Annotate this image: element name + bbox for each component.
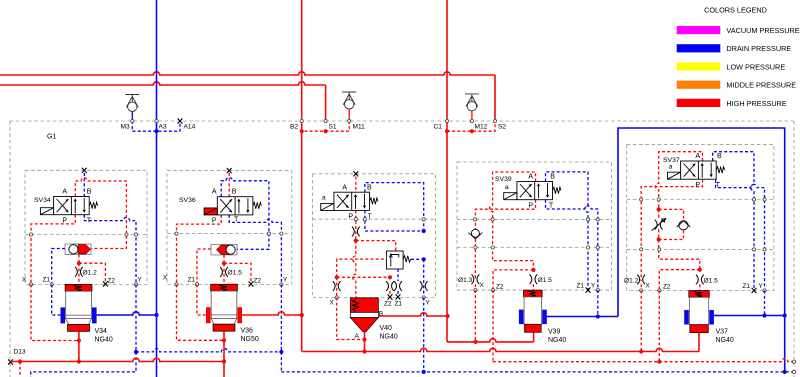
wire X node to V36 bottom junction xyxy=(177,285,225,341)
wire S1 drop to port S1 xyxy=(325,85,327,121)
wire S1 high-pressure bus (second horizontal) xyxy=(0,82,326,85)
svg-text:DRAIN PRESSURE: DRAIN PRESSURE xyxy=(726,44,791,53)
svg-text:COLORS LEGEND: COLORS LEGEND xyxy=(704,6,767,15)
wire SV37 P-line to orifice 1.2 xyxy=(641,180,702,281)
wire SV39 A-line loop xyxy=(489,172,535,270)
port Z2 plugged (SV34) xyxy=(103,281,108,286)
svg-text:X: X xyxy=(22,277,27,284)
svg-text:Ø1.3: Ø1.3 xyxy=(458,277,473,284)
port node Z1 (V36) xyxy=(195,283,198,286)
port node Y (V36) xyxy=(280,283,283,286)
port node M11 xyxy=(348,119,351,122)
port node bottom right xyxy=(792,370,795,373)
wire V34 drain to A3 line xyxy=(97,312,157,315)
junction A3 pilot xyxy=(154,129,158,133)
wire relief valve bottom to Z1 plug xyxy=(397,269,399,281)
svg-text:Y: Y xyxy=(138,277,143,284)
subplate divider V40 assembly xyxy=(313,218,436,220)
port node Y (V39) xyxy=(596,289,599,292)
svg-text:B: B xyxy=(717,153,722,160)
wire check valve bottom branch (SV36) xyxy=(223,255,225,264)
cartridge valve V36 NG50 xyxy=(211,284,238,291)
junction M12 pilot xyxy=(470,129,474,133)
wire V34 main port down to D13 bus xyxy=(78,331,80,361)
wire D13 branch to bottom edge xyxy=(19,362,21,377)
svg-text:Ø1.5: Ø1.5 xyxy=(538,277,553,284)
flow control valve SV37 pilot (adjustable) xyxy=(655,220,663,230)
relief valve V40 pilot xyxy=(386,251,403,269)
svg-text:V39: V39 xyxy=(548,329,561,336)
port node X (V34) xyxy=(29,283,32,286)
svg-text:Y: Y xyxy=(759,283,764,290)
wire V37 feed riser xyxy=(698,331,700,351)
port node X (V40) xyxy=(335,296,338,299)
junction check/orifice SV36 xyxy=(222,261,226,265)
junction V40 B on C1 line xyxy=(446,314,450,318)
solenoid valve V40 pilot xyxy=(334,192,378,210)
junction B2 line V36 drain xyxy=(300,313,304,317)
svg-text:Z1: Z1 xyxy=(43,277,51,284)
wire X node to V40 bottom junction xyxy=(337,298,365,340)
port node S2 xyxy=(493,119,496,122)
junction blue loop on bottom drain bus xyxy=(783,370,787,374)
wire Y drain down to bottom bus xyxy=(31,352,136,377)
svg-text:NG50: NG50 xyxy=(241,336,259,343)
bottom drain bus (blue) xyxy=(281,371,794,373)
svg-text:Z1: Z1 xyxy=(395,301,403,308)
junction P pilot (V40) xyxy=(354,239,358,243)
junction Y on V39 drain xyxy=(596,314,600,318)
junction Y on bottom drain bus (V40) xyxy=(422,370,426,374)
wire C1 to V39 feed xyxy=(447,339,534,342)
port SV36 B plugged xyxy=(227,168,232,173)
check valve SV39 pilot (vertical) xyxy=(471,229,479,237)
port node X (V39) xyxy=(474,289,477,292)
svg-text:Y: Y xyxy=(426,300,431,307)
node circles cluster2 divider xyxy=(175,232,178,235)
svg-text:Z2: Z2 xyxy=(108,278,116,285)
svg-text:S2: S2 xyxy=(498,124,506,131)
wire SV37 T-line to Y node xyxy=(716,180,765,291)
junction Y on V37 drain xyxy=(762,313,766,317)
orifice Y (V40) xyxy=(420,281,428,291)
svg-text:SV34: SV34 xyxy=(34,197,51,204)
enclosure G1 boundary left edge xyxy=(9,121,11,377)
svg-text:A3: A3 xyxy=(159,124,167,131)
junction V40 A on bus xyxy=(362,349,366,353)
svg-text:Z2: Z2 xyxy=(496,284,504,291)
solenoid valve SV34 xyxy=(54,197,98,215)
svg-text:X: X xyxy=(163,275,168,282)
svg-text:T: T xyxy=(549,203,554,210)
svg-text:Y: Y xyxy=(283,277,288,284)
wire orifice to V37 spring chamber xyxy=(699,284,701,290)
svg-text:X: X xyxy=(330,300,335,307)
node circles cluster5 dividers xyxy=(640,198,643,201)
svg-text:V36: V36 xyxy=(241,328,254,335)
junction check/orifice xyxy=(77,261,81,265)
wire orifice to V36 spring chamber xyxy=(223,263,225,284)
wire SV34 P-line to X node xyxy=(31,215,75,285)
orifice 1.5mm (V36 pilot) xyxy=(220,267,228,277)
svg-text:S1: S1 xyxy=(329,124,337,131)
junction Z2 (V40) xyxy=(388,275,392,279)
gauge test point M12 xyxy=(465,94,479,111)
wire V40 B port to C1 line xyxy=(378,313,447,316)
svg-text:M3: M3 xyxy=(121,124,130,131)
junction D13 branch xyxy=(18,359,22,363)
wire Z1 orifice to plug xyxy=(397,291,399,295)
svg-text:A: A xyxy=(528,174,533,181)
wire A-line branch to Z2 xyxy=(493,270,533,290)
junction S1 pilot xyxy=(324,129,328,133)
wire P pilot down to V40 spring chamber xyxy=(353,241,356,298)
wire V39 drain to right loop xyxy=(547,316,618,318)
junction X pilot (V40) xyxy=(335,275,339,279)
wire Z1 node to V34 left tab xyxy=(52,285,61,316)
gauge test point M11 xyxy=(342,92,356,109)
wire check valve to orifice 1.3 xyxy=(474,239,476,279)
port node D right (red bus) xyxy=(792,360,795,363)
wire Y drain down to bottom bus corner xyxy=(280,352,282,372)
cartridge valve V37 NG40 xyxy=(689,291,710,298)
solenoid valve SV37 xyxy=(681,161,725,179)
svg-text:T: T xyxy=(87,218,92,225)
svg-text:NG40: NG40 xyxy=(548,337,566,344)
wire V40 pilot B-line xyxy=(365,183,424,231)
svg-text:X: X xyxy=(480,282,485,289)
port V40 pilot A plugged xyxy=(353,171,358,176)
svg-text:T: T xyxy=(716,182,721,189)
orifice 1.5mm (V39) xyxy=(530,274,538,284)
wire to Z2 plug xyxy=(79,263,106,281)
junction V34 drain on A3 line xyxy=(154,313,158,317)
drain-pressure dashed bus (red) xyxy=(493,359,794,362)
wire B2 bus to V36/V40/V37 (bottom solid red bus) xyxy=(302,348,699,351)
wire SV36 B plug stub xyxy=(228,173,230,197)
subplate divider SV34 assembly xyxy=(25,234,147,236)
svg-text:B: B xyxy=(367,185,372,192)
svg-text:NG40: NG40 xyxy=(95,337,113,344)
wire drain link to A3 line xyxy=(136,349,281,352)
orifice Z2 (V40) xyxy=(386,281,394,291)
port node B2 xyxy=(300,119,303,122)
port Z1 plugged (V40) xyxy=(396,294,401,299)
svg-text:Z2: Z2 xyxy=(384,301,392,308)
wire orifice 1.5 to V39 spring chamber xyxy=(532,284,534,290)
wire orifice to X node xyxy=(474,284,476,290)
svg-text:A: A xyxy=(355,333,360,340)
svg-text:Ø1.2: Ø1.2 xyxy=(624,277,639,284)
wire A-line jog to orifice 1.5 (V37) xyxy=(659,240,700,270)
svg-text:A14: A14 xyxy=(184,124,196,131)
wire orifice to V34 spring chamber xyxy=(78,263,80,284)
port node Y (V34) xyxy=(134,283,137,286)
node line circles cluster1 divider xyxy=(29,233,32,236)
check valve SV34 pilot xyxy=(65,244,91,255)
orifice X (V40) xyxy=(333,281,341,291)
orifice 1.2mm (V37) xyxy=(637,275,645,285)
wire SV34 A-line to check valve xyxy=(75,178,126,249)
legend swatch HIGH PRESSURE xyxy=(677,99,721,107)
junction B2 pilot xyxy=(300,129,304,133)
junction V40 X pilot xyxy=(362,337,366,341)
svg-text:MIDDLE PRESSURE: MIDDLE PRESSURE xyxy=(726,81,796,90)
orifice 1.2mm (V34 pilot) xyxy=(75,267,83,277)
wire B2-S1-M11 pressure pilot link xyxy=(302,121,350,131)
svg-text:B: B xyxy=(232,189,237,196)
legend swatch DRAIN PRESSURE xyxy=(677,44,721,52)
wire X-line corner to relief left port xyxy=(337,259,387,277)
subplate divider SV37 assembly lower xyxy=(627,248,774,250)
solenoid valve SV36 (energized) xyxy=(217,197,261,215)
svg-text:P: P xyxy=(528,203,533,210)
svg-text:D13: D13 xyxy=(14,349,26,356)
svg-text:SV39: SV39 xyxy=(495,176,512,183)
port node Y (V37) xyxy=(763,289,766,292)
svg-text:X: X xyxy=(646,283,651,290)
svg-text:B2: B2 xyxy=(290,124,298,131)
svg-text:P: P xyxy=(212,218,217,225)
svg-text:P: P xyxy=(695,182,700,189)
subplate box SV34/V34 assembly xyxy=(25,170,147,284)
wire Z2 down to drain-pressure bus xyxy=(492,290,494,362)
subplate divider SV37 assembly upper xyxy=(627,199,774,201)
enclosure G1 boundary top edge xyxy=(10,120,795,122)
svg-text:T: T xyxy=(234,217,239,224)
wire D13 high pressure bus xyxy=(11,358,225,361)
svg-text:Z2: Z2 xyxy=(254,278,262,285)
wire X-line down through orifice xyxy=(336,277,338,297)
port node Z2 (V39) xyxy=(491,289,494,292)
svg-text:M12: M12 xyxy=(475,124,488,131)
port Z1 plugged (V37) xyxy=(752,288,757,293)
wire V36 pressure out to B2 line xyxy=(242,312,302,315)
svg-text:LOW PRESSURE: LOW PRESSURE xyxy=(726,62,785,71)
svg-text:Ø1.2: Ø1.2 xyxy=(83,270,98,277)
cartridge valve V40 NG40 (poppet) xyxy=(350,298,378,313)
wire Y node to V37 drain line xyxy=(764,291,766,316)
junction SV37 A-line top xyxy=(657,207,661,211)
node circles cluster3 divider xyxy=(354,218,357,221)
wire S2 drop to port S2 xyxy=(494,75,496,121)
port SV34 B plugged xyxy=(82,168,87,173)
wire X node down to V39 feed xyxy=(474,290,476,342)
subplate divider SV39 assembly upper xyxy=(457,218,612,220)
port node X (V37) xyxy=(640,289,643,292)
subplate box SV39/V39 assembly xyxy=(457,162,612,290)
svg-text:a: a xyxy=(669,164,673,171)
port node C1 xyxy=(445,119,448,122)
svg-text:C1: C1 xyxy=(434,124,443,131)
svg-text:NG40: NG40 xyxy=(716,337,734,344)
wire Z1 node to V36 left tab xyxy=(197,285,206,316)
wire check valve to Z1 node (SV36) xyxy=(197,249,211,285)
orifice Z1 (V40) xyxy=(394,281,402,291)
wire A3 drain line (blue vertical) xyxy=(156,0,158,377)
svg-text:Z1: Z1 xyxy=(188,277,196,284)
port Z1 plugged (V39) xyxy=(586,288,591,293)
svg-text:VACUUM PRESSURE: VACUUM PRESSURE xyxy=(726,26,799,35)
drain loop around SV37 assembly (blue) xyxy=(618,128,785,372)
wire Y node to bottom drain bus xyxy=(423,298,425,372)
wire V37 drain to loop xyxy=(714,315,785,317)
junction V39 X pilot xyxy=(474,340,478,344)
svg-text:B: B xyxy=(87,189,92,196)
svg-text:M11: M11 xyxy=(353,124,366,131)
wire SV39 T-line to Y node xyxy=(546,200,598,290)
svg-text:Y: Y xyxy=(591,283,596,290)
wire X node to main bus (V37) xyxy=(640,291,642,352)
svg-text:NG40: NG40 xyxy=(380,334,398,341)
junction relief drain on Y line xyxy=(422,257,426,261)
orifice V40 pilot supply xyxy=(352,227,360,237)
svg-text:A: A xyxy=(342,185,347,192)
junction A-line Ø1.5 (V37) xyxy=(698,268,702,272)
wire Y node to drain link xyxy=(280,285,282,352)
wire C1-M12-S2 pressure pilot link xyxy=(447,121,495,131)
svg-text:B: B xyxy=(550,174,555,181)
orifice 1.5mm (V37) xyxy=(696,275,704,285)
wire check valve to Z1 node (drain pilot) xyxy=(52,249,65,285)
port D13 plugged xyxy=(8,359,13,364)
wire V40 A port down to bus xyxy=(364,332,366,352)
cartridge valve V39 NG40 xyxy=(524,290,543,297)
subplate box V40 assembly xyxy=(313,174,436,298)
junction SV37 A-line bottom xyxy=(657,237,661,241)
subplate box SV37/V37 assembly xyxy=(627,144,774,290)
wire SV34 T-line to Y node xyxy=(84,215,136,285)
gauge test point M3 xyxy=(125,95,139,112)
port node M3 xyxy=(131,119,134,122)
wire V40 pilot P-line through orifice xyxy=(355,210,357,240)
wire SV36 A-line to check valve xyxy=(221,178,269,250)
wire V39 feed riser xyxy=(533,332,535,342)
port node Z2 (V37) xyxy=(658,289,661,292)
junction B/T drain (V40) xyxy=(422,229,426,233)
svg-text:Z1: Z1 xyxy=(743,283,751,290)
junction Y drain (V36) xyxy=(279,350,283,354)
svg-text:HIGH PRESSURE: HIGH PRESSURE xyxy=(726,99,787,108)
svg-text:Z1: Z1 xyxy=(577,283,585,290)
wire to Z2 plug (SV36) xyxy=(224,263,251,281)
wire SV37 B-line blue box xyxy=(713,152,754,291)
port node Z1 (V34) xyxy=(50,283,53,286)
wire Z2 orifice to plug xyxy=(389,291,391,295)
junction A-line Ø1.5 (V39) xyxy=(531,268,535,272)
wire Y line through orifice to node xyxy=(423,259,425,297)
wire S2 high-pressure bus (top horizontal) xyxy=(0,72,495,75)
legend swatch MIDDLE PRESSURE xyxy=(677,81,721,89)
svg-text:V40: V40 xyxy=(380,325,393,332)
enclosure G1 boundary right edge xyxy=(793,121,795,377)
wire Y node to V39 drain line xyxy=(597,290,599,316)
legend swatch LOW PRESSURE xyxy=(677,62,721,70)
port node A3 xyxy=(155,119,158,122)
svg-text:Ø1.5: Ø1.5 xyxy=(228,270,243,277)
wire SV37 A-line loop xyxy=(656,152,703,210)
wire SV39 B-line blue box xyxy=(546,172,589,290)
port node Y (V40) xyxy=(422,296,425,299)
svg-text:Ø1.5: Ø1.5 xyxy=(704,277,719,284)
wire X-line to Z2 plug xyxy=(337,277,390,281)
svg-text:V37: V37 xyxy=(716,329,729,336)
wire SV34 B plug stub xyxy=(83,173,85,197)
svg-text:a: a xyxy=(505,184,509,191)
svg-text:Z2: Z2 xyxy=(663,284,671,291)
port node S1 xyxy=(324,119,327,122)
wire flow control vertical xyxy=(658,209,660,239)
svg-text:T: T xyxy=(368,214,373,221)
wire V40 pilot A plug stub xyxy=(355,177,357,193)
wire V36 main port down to bottom edge xyxy=(223,331,225,377)
subplate box SV36/V36 assembly xyxy=(167,171,292,285)
subplate divider SV36 assembly xyxy=(167,233,292,235)
port node X (V36) xyxy=(175,283,178,286)
wire A-line branch to Z2 (V37) xyxy=(659,270,700,291)
svg-text:SV36: SV36 xyxy=(179,197,196,204)
bypass check valve SV37 pilot xyxy=(659,209,684,239)
svg-text:P: P xyxy=(62,218,67,225)
junction X on bus (V37) xyxy=(639,349,643,353)
wire Y node to drain bus xyxy=(135,285,137,353)
port node M12 xyxy=(470,119,473,122)
wire P pilot to relief valve top xyxy=(356,241,396,251)
svg-text:V34: V34 xyxy=(95,328,108,335)
check valve SV36 pilot xyxy=(211,244,237,255)
svg-text:A: A xyxy=(212,189,217,196)
port A14 plugged xyxy=(178,118,183,123)
svg-text:a: a xyxy=(322,195,326,202)
junction V37 drain on loop xyxy=(783,313,787,317)
svg-text:A: A xyxy=(62,189,67,196)
junction C1 pilot xyxy=(445,129,449,133)
cartridge valve V34 NG40 xyxy=(65,284,92,291)
junction V36 on D13 bus xyxy=(222,359,226,363)
solenoid valve SV39 xyxy=(517,182,561,200)
junction Z2 on red dashed bus xyxy=(657,360,661,364)
wire C1 high-pressure vertical xyxy=(446,0,448,342)
junction V34 on D13 bus xyxy=(77,359,81,363)
svg-text:G1: G1 xyxy=(47,134,56,141)
svg-text:P: P xyxy=(348,214,353,221)
junction V36 X pilot xyxy=(222,338,226,342)
wire B2 high-pressure vertical xyxy=(301,0,303,351)
junction V36 out on B2 line xyxy=(300,313,304,317)
legend swatch VACUUM PRESSURE xyxy=(677,26,721,34)
wire SV36 T-line to Y node xyxy=(229,215,281,285)
wire check valve bottom branch xyxy=(78,255,80,264)
wire X node to V34 bottom junction xyxy=(31,285,79,341)
port Z2 plugged (V40) xyxy=(388,294,393,299)
wire relief valve drain (blue) xyxy=(411,258,424,260)
port Z2 plugged (SV36) xyxy=(249,281,254,286)
wire SV36 P-line to X node xyxy=(177,215,222,285)
junction Y drain (V34) xyxy=(134,350,138,354)
orifice 1.3mm (SV39) xyxy=(472,274,480,284)
wire V40 pilot T-line xyxy=(365,210,424,231)
node circles cluster4 dividers xyxy=(474,218,477,221)
wire SV39 P-line to check valve xyxy=(475,200,535,230)
wire orifice 1.2 to X node xyxy=(640,284,642,290)
junction V34 X pilot xyxy=(77,338,81,342)
wire Z2 down to drain-pressure bus (V37) xyxy=(658,291,660,362)
svg-text:A: A xyxy=(695,153,700,160)
subplate divider SV39 assembly lower xyxy=(457,247,612,249)
wire M3-A3-A14 drain pilot link xyxy=(132,121,180,131)
